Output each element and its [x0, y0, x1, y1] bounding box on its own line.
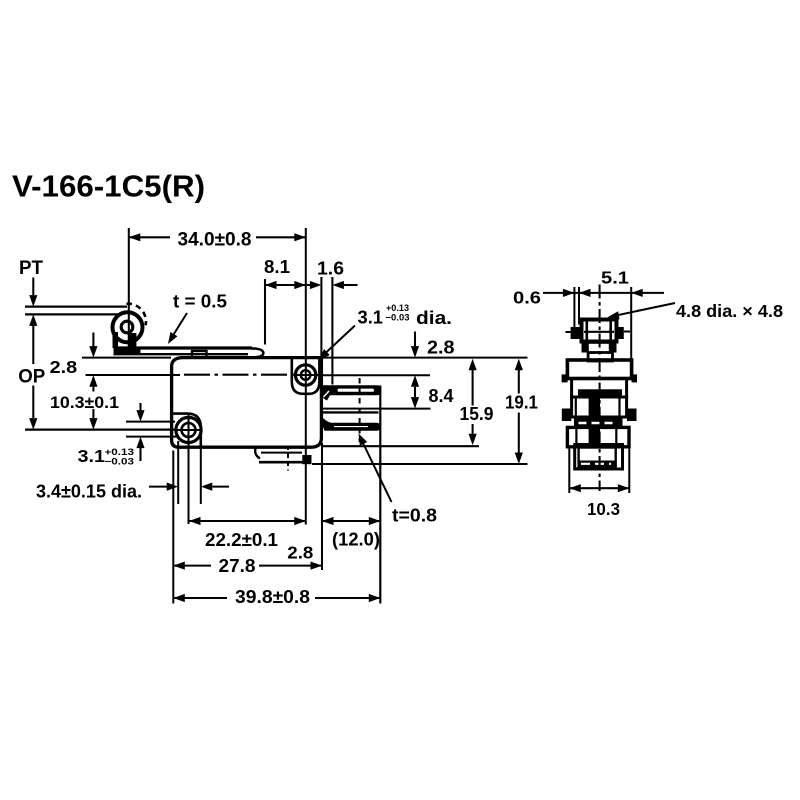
top-right hinge hole pad	[292, 358, 320, 394]
svg-text:V-166-1C5(R): V-166-1C5(R)	[12, 170, 205, 204]
bottom-left mounting hole	[176, 417, 203, 442]
svg-text:−0.03: −0.03	[105, 457, 135, 468]
hinge roller lever	[114, 348, 264, 358]
dim 10.3±0.1	[50, 387, 119, 430]
label 3.1 dia. right with leader	[316, 303, 452, 363]
dim 0.6 / 5.1	[513, 268, 664, 360]
svg-text:39.8±0.8: 39.8±0.8	[235, 587, 310, 607]
svg-text:3.1: 3.1	[358, 308, 384, 328]
bottom-left mounting hole pad	[172, 414, 201, 447]
svg-text:t=0.8: t=0.8	[392, 506, 437, 526]
dim PT	[19, 257, 43, 307]
side view plunger	[582, 320, 617, 342]
svg-text:19.1: 19.1	[505, 393, 538, 413]
svg-text:0.6: 0.6	[513, 288, 541, 308]
dim 39.8±0.8	[173, 587, 380, 607]
svg-text:22.2±0.1: 22.2±0.1	[205, 530, 278, 550]
extension line terminal end	[379, 386, 381, 604]
extension line body left bottom	[172, 451, 174, 604]
lever free position line	[25, 306, 127, 308]
dim 22.2±0.1	[189, 517, 306, 550]
svg-text:10.3±0.1: 10.3±0.1	[50, 393, 119, 412]
dim 8.1	[264, 257, 306, 345]
dim 34.0±0.8	[129, 228, 306, 525]
svg-text:2.8: 2.8	[427, 338, 455, 358]
dim OP	[18, 314, 45, 429]
svg-text:8.4: 8.4	[429, 386, 454, 406]
OP base line	[25, 429, 176, 431]
switch body outline	[172, 358, 322, 448]
side view flange ears	[562, 374, 568, 382]
svg-text:2.8: 2.8	[287, 543, 313, 563]
side view centre line	[599, 285, 601, 492]
side view lower ears	[562, 409, 572, 422]
svg-text:34.0±0.8: 34.0±0.8	[178, 230, 252, 251]
extension line body top left	[82, 357, 171, 359]
upper terminal	[322, 385, 382, 400]
svg-text:t = 0.5: t = 0.5	[173, 292, 227, 312]
svg-text:1.6: 1.6	[317, 259, 344, 279]
dim (12.0)	[322, 517, 380, 550]
tab centre dashed line	[287, 446, 289, 471]
svg-text:2.8: 2.8	[50, 357, 78, 377]
svg-text:dia.: dia.	[416, 308, 452, 328]
extension line body right bottom	[321, 443, 323, 570]
side view bottom edge	[575, 467, 616, 470]
top-right hinge hole	[295, 365, 315, 385]
svg-text:4.8 dia. × 4.8: 4.8 dia. × 4.8	[676, 301, 783, 321]
dim 2.8 right	[411, 332, 455, 387]
svg-text:5.1: 5.1	[601, 268, 629, 288]
lever operating position line	[25, 313, 119, 315]
roller released-position phantom arc	[127, 304, 146, 325]
dim 15.9	[460, 359, 494, 446]
extension line hole centre right	[320, 374, 430, 376]
body centre line	[86, 374, 320, 376]
svg-text:15.9: 15.9	[460, 404, 494, 424]
svg-text:−0.03: −0.03	[386, 313, 410, 324]
roller	[113, 312, 143, 342]
dim 3.1 +0.13 -0.03 left	[78, 403, 178, 468]
roller bracket	[113, 332, 137, 348]
side view plunger base band	[582, 341, 617, 353]
side view section C	[572, 397, 627, 418]
svg-text:3.1: 3.1	[78, 446, 106, 466]
side view stem	[588, 353, 612, 362]
side view top flange	[567, 360, 631, 379]
side view black band 2	[574, 417, 623, 429]
svg-text:OP: OP	[18, 366, 45, 388]
dim 8.4	[321, 386, 453, 409]
svg-text:27.8: 27.8	[219, 556, 256, 576]
bottom solder terminal tab	[255, 446, 311, 464]
extension line tab bottom right	[312, 463, 528, 465]
svg-text:10.3: 10.3	[587, 499, 620, 519]
svg-text:8.1: 8.1	[264, 257, 290, 277]
terminal centre dashed line	[359, 378, 361, 442]
dim 27.8	[173, 556, 322, 576]
dim 3.4±0.15 dia.	[36, 415, 229, 525]
extension line body bottom right	[322, 445, 479, 447]
extension line body top right	[321, 357, 527, 359]
side view section E	[575, 445, 623, 470]
label t=0.8 with leader	[355, 432, 437, 526]
label t = 0.5 with leader	[164, 292, 227, 347]
svg-text:(12.0): (12.0)	[332, 530, 380, 550]
dim 10.3 side	[569, 448, 629, 519]
side view plunger ears	[571, 327, 582, 339]
svg-text:3.4±0.15 dia.: 3.4±0.15 dia.	[36, 482, 142, 502]
svg-text:PT: PT	[19, 257, 43, 279]
dim 19.1	[505, 359, 538, 464]
dim 2.8 left	[50, 333, 98, 387]
dim 1.6	[307, 259, 358, 385]
lower terminal	[322, 412, 381, 430]
side view section B	[572, 379, 627, 398]
plunger pin	[192, 351, 207, 358]
label 4.8 dia. x 4.8 with leader	[607, 301, 783, 321]
side view section D	[567, 427, 629, 446]
side view black band 1	[578, 389, 622, 396]
